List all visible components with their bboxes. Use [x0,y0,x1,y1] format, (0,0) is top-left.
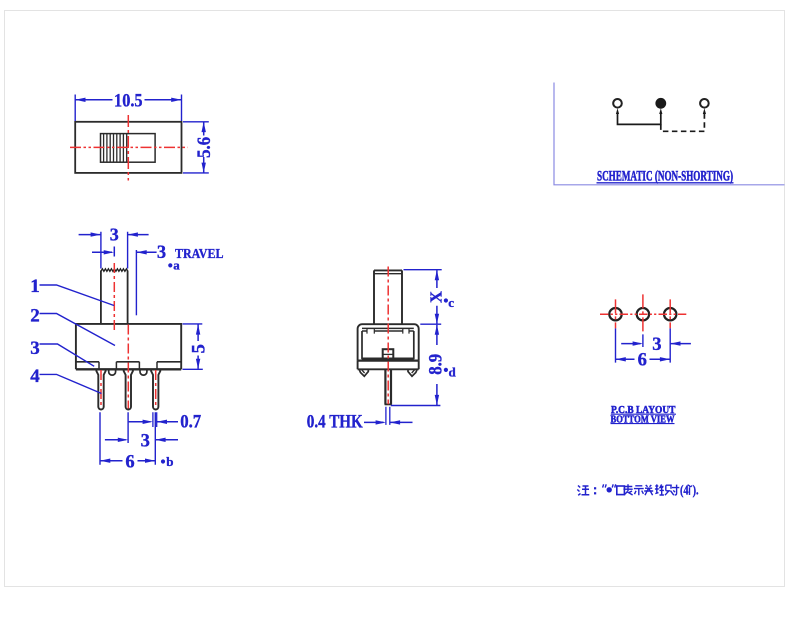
pcb dim 3: lines and arrows [621,343,691,345]
dimension 5.6 line [203,122,205,173]
red crosshair vertical pad2 [642,294,644,334]
note: char guan [644,485,653,495]
knurled slider knob hatch [104,134,127,163]
svg-text:TRAVEL: TRAVEL [175,247,224,262]
right mounting foot [408,370,417,376]
dim X: top extension line [404,269,442,271]
pad hole 2 [637,308,649,320]
pad hole 1 [609,308,621,320]
dim 5: extension lines [183,324,203,369]
body bottom step line upper [76,361,181,363]
terminal circle right [700,99,709,108]
knob side edges (side view) [374,270,402,324]
dimension 10.5 arrowheads [75,98,181,102]
leader 2 [40,314,116,346]
svg-text:8.9: 8.9 [426,354,446,375]
cavity bottom thick line [362,358,414,360]
svg-text:).: ). [693,483,699,498]
red crosshair horizontal [600,313,686,315]
svg-text:6: 6 [638,351,647,371]
left mounting foot [359,370,368,376]
note: quoted dot mark [603,484,616,487]
svg-text:3: 3 [141,431,150,451]
svg-text:0.7: 0.7 [180,413,201,433]
svg-text:3: 3 [652,335,661,355]
svg-text:5.6: 5.6 [194,137,215,158]
key mark d [444,368,448,372]
dim 5: line and arrows [197,325,199,369]
key mark c [444,298,448,302]
dimension 5.6 arrowheads [202,122,206,173]
dimension 10.5 line [75,99,181,101]
note: char jian [655,484,664,495]
pin bottom edge [385,403,392,405]
dim X: line and arrows [436,270,438,323]
red centerline (side view) [387,267,389,405]
cavity inner step line [362,330,414,332]
red crosshair vertical pad3 [669,299,671,328]
svg-text:1: 1 [30,276,40,297]
pcb dim 6: line and arrows [616,358,671,360]
svg-text:6: 6 [125,452,134,472]
pin (side view) [385,370,391,405]
knob top edge [374,269,402,271]
svg-text:10.5: 10.5 [114,90,143,111]
switch body outline (top view) [75,122,181,173]
base band sides [358,361,419,370]
slider slot rectangle [101,134,156,163]
svg-text:b: b [166,454,173,469]
dim 3 travel: center tick [113,247,115,257]
center post mid line [383,353,394,355]
dim X: mid extension line [420,323,441,325]
contact arrow right [703,108,706,114]
leader 1 [40,285,115,306]
red centerline knob (travel position) [113,263,115,332]
svg-text:c: c [448,295,454,310]
dimension 10.5 extension lines [75,95,181,122]
knob knurled top edge zigzag [101,269,128,272]
dim 6: line and arrows [100,460,155,462]
U bump between pin1 and pin2 [109,370,116,375]
note: colon [594,487,596,494]
pin 2 (middle terminal) [124,370,133,409]
dashed wire middle to right [661,113,705,132]
svg-text:2: 2 [30,305,40,326]
dim 0.4 THK: lines and arrows [364,421,413,423]
solid wire left to middle [618,113,661,125]
svg-text:5: 5 [190,344,210,353]
red vertical centerline [127,115,129,181]
red centerline pin3 [155,370,157,408]
svg-text:3: 3 [157,243,166,263]
dim 0.4 THK: extension lines below pin [386,407,390,425]
key mark b [161,459,165,463]
pin3 edge extension lines [153,412,157,427]
note: char biao [623,484,632,495]
note: char shi [634,486,644,495]
note: char ge [688,485,693,495]
note: char chi [665,485,674,495]
contact arrow middle [659,108,662,114]
dim 8.9: bottom extension line [391,405,441,407]
svg-text:0.4 THK: 0.4 THK [307,413,363,433]
svg-text:3: 3 [30,338,40,359]
body bottom step verticals [99,362,157,370]
schematic title underline [597,182,734,184]
leader 3 [40,344,95,366]
body outline (front view) [76,324,181,369]
note (chinese): char zhu [577,486,589,496]
cavity top inner line [362,327,414,329]
svg-text:3: 3 [110,224,119,244]
pad hole 3 [664,308,676,320]
title block frame L [554,83,785,185]
center post [383,349,394,359]
note: char cun [672,485,679,495]
blue extension lines below pads [616,328,671,362]
terminal circle left [613,99,622,108]
svg-text:d: d [449,365,457,380]
U bump between pin2 and pin3 [140,370,147,375]
dim 3 knob: lines and arrows [79,234,149,236]
pin 3 (right terminal) [151,370,160,409]
dim 3 knob: extension lines [101,232,128,269]
terminal circle middle (common, filled) [656,98,666,108]
red crosshair vertical pad1 [615,299,617,328]
dim 3 travel: lines and arrows [92,251,157,253]
leader 4 [40,374,102,393]
body bottom edge line [76,368,181,370]
dim 3 pitch: lines and arrows [105,439,178,441]
red centerline pin1 [100,370,102,408]
svg-text:a: a [173,258,180,273]
label underline 2 [611,423,675,425]
dim 3 travel: right extension line [135,250,137,315]
dim 0.7: lines and arrows [129,421,178,423]
svg-text:4: 4 [30,366,40,387]
red horizontal centerline [70,146,188,148]
label underline 1 [611,413,676,415]
svg-text:X: X [426,291,445,303]
pin 1 (left terminal) [96,370,105,409]
pin extension lines below [100,412,155,464]
svg-text:(4: (4 [680,483,689,498]
body cavity inner outline [362,331,414,359]
note: char kou [617,486,625,495]
base band bottom edge [358,368,419,370]
red centerline main vertical [127,325,129,409]
body outer outline (side view) [358,324,419,360]
base band top edge [358,360,419,362]
knob cap line [374,273,402,275]
contact arrow left [616,108,619,114]
key mark a [168,263,172,267]
knob side edges (front view) [101,271,128,324]
dim 8.9: line and arrows [436,325,438,405]
dimension 5.6 extension lines [183,122,209,173]
cavity corner notches [367,328,409,333]
